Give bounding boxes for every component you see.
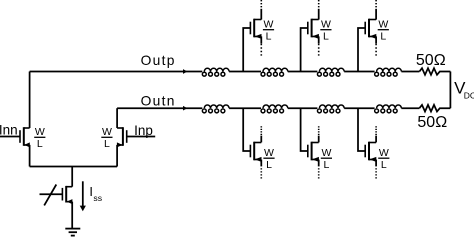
- svg-text:W: W: [35, 126, 45, 138]
- svg-text:50Ω: 50Ω: [416, 52, 446, 69]
- svg-text:W: W: [321, 19, 331, 31]
- svg-text:L: L: [380, 31, 386, 43]
- svg-text:L: L: [323, 31, 329, 43]
- svg-text:L: L: [37, 138, 43, 150]
- svg-text:50Ω: 50Ω: [417, 114, 447, 131]
- svg-text:ss: ss: [93, 193, 102, 203]
- svg-text:Outp: Outp: [141, 53, 176, 68]
- svg-text:W: W: [264, 147, 274, 159]
- svg-text:W: W: [264, 19, 274, 31]
- svg-text:L: L: [104, 138, 110, 150]
- svg-text:DC: DC: [464, 91, 474, 101]
- svg-text:Outn: Outn: [141, 93, 176, 108]
- svg-text:W: W: [379, 147, 389, 159]
- svg-text:Inn: Inn: [0, 123, 18, 138]
- svg-text:L: L: [266, 159, 272, 171]
- svg-text:W: W: [102, 126, 112, 138]
- svg-text:L: L: [266, 31, 272, 43]
- svg-text:L: L: [323, 159, 329, 171]
- svg-text:W: W: [321, 147, 331, 159]
- svg-text:Inp: Inp: [134, 123, 153, 138]
- svg-text:L: L: [381, 159, 387, 171]
- svg-text:W: W: [378, 19, 388, 31]
